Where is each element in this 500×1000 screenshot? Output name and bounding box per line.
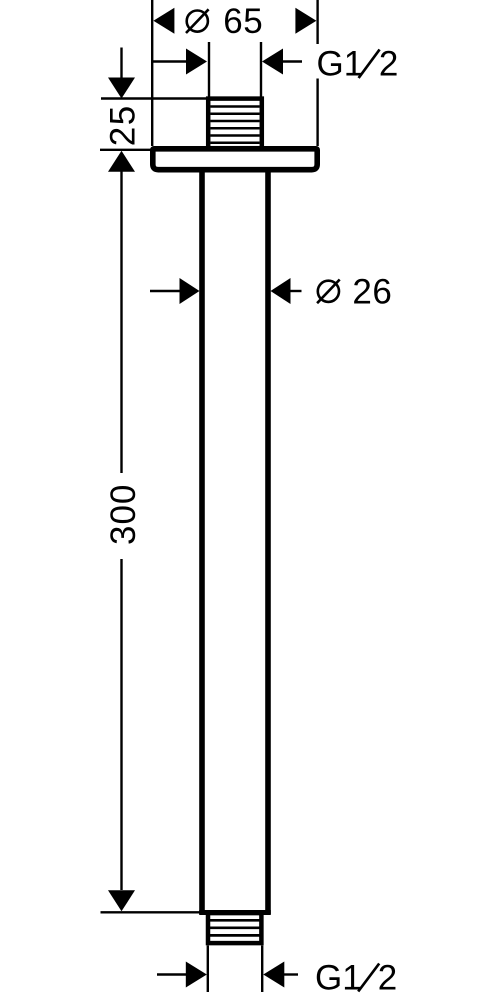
svg-text:2: 2: [379, 45, 398, 84]
svg-text:26: 26: [352, 273, 392, 312]
svg-text:G1: G1: [317, 45, 364, 84]
svg-text:300: 300: [104, 484, 143, 545]
svg-text:25: 25: [103, 104, 142, 146]
svg-text:2: 2: [378, 959, 397, 998]
svg-text:G1: G1: [315, 959, 362, 998]
svg-text:65: 65: [223, 2, 263, 41]
